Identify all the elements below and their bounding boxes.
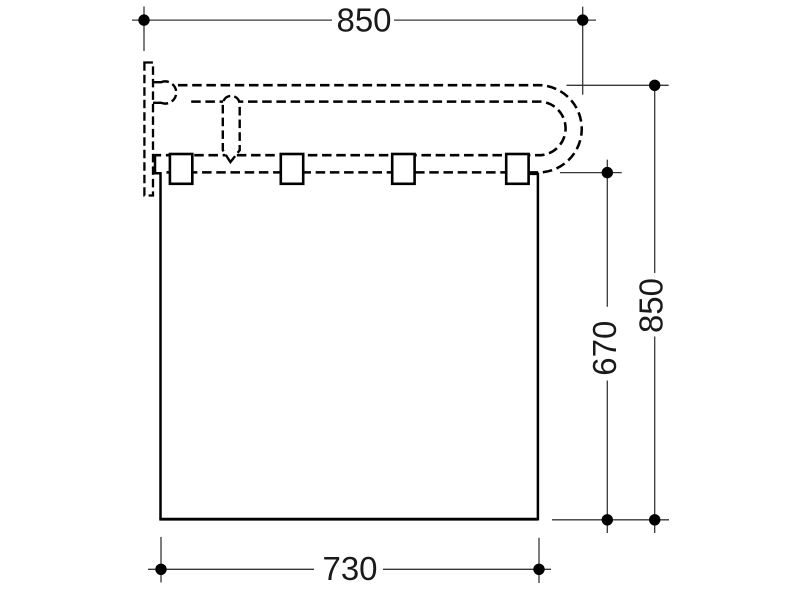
curtain clip 2: [281, 154, 303, 184]
bottom 730 dim line left segment: [148, 568, 314, 570]
670 dim bottom dot: [602, 514, 613, 525]
top dimension line 850 (left segment): [132, 19, 332, 21]
670 dim line lower segment: [606, 381, 608, 534]
right 850 dim line upper segment: [654, 85, 656, 273]
right dims shared bottom extension line: [552, 519, 669, 521]
curtain clip 1: [170, 154, 192, 184]
top dim right extension line: [582, 7, 584, 95]
right 850 dim bottom dot: [649, 514, 660, 525]
top dim left dot: [138, 14, 149, 25]
right 850 dim top dot: [649, 80, 660, 91]
svg-text:850: 850: [336, 2, 391, 39]
curtain outline (solid): [155, 155, 538, 520]
curtain clip 4: [506, 154, 528, 184]
bottom dim right dot: [533, 564, 544, 575]
hinge knuckle arc: [161, 81, 176, 103]
bottom 730 dim line right segment: [383, 568, 551, 570]
670 dim top extension line: [560, 172, 622, 174]
top dim left extension tick: [143, 7, 145, 52]
top dim right dot: [577, 14, 588, 25]
670 dim line upper segment: [606, 160, 608, 307]
670 dim top dot: [602, 167, 613, 178]
right 850 dim line lower segment: [654, 337, 656, 534]
release lever capsule: [223, 96, 240, 162]
svg-text:850: 850: [633, 278, 670, 333]
top dimension line 850 (right segment): [394, 19, 596, 21]
curtain clip 3: [392, 154, 414, 184]
hinge lower stub: [153, 102, 162, 104]
rail outer contour: upper tube top line, outer U-bend arc, lower tube bottom line: [167, 85, 582, 172]
bottom dim right extension tick: [538, 538, 540, 583]
rail inner contour: upper tube bottom line, inner U-bend arc, lower tube top line: [153, 102, 566, 156]
bottom dim left dot: [155, 564, 166, 575]
bottom dim left extension tick: [160, 537, 162, 583]
right 850 dim top extension line: [567, 84, 669, 86]
svg-text:730: 730: [322, 550, 377, 587]
wall mounting plate (dashed): [144, 63, 153, 196]
curtain bottom hem: [159, 518, 538, 521]
svg-text:670: 670: [586, 321, 623, 376]
hinge upper stub: [153, 81, 162, 83]
